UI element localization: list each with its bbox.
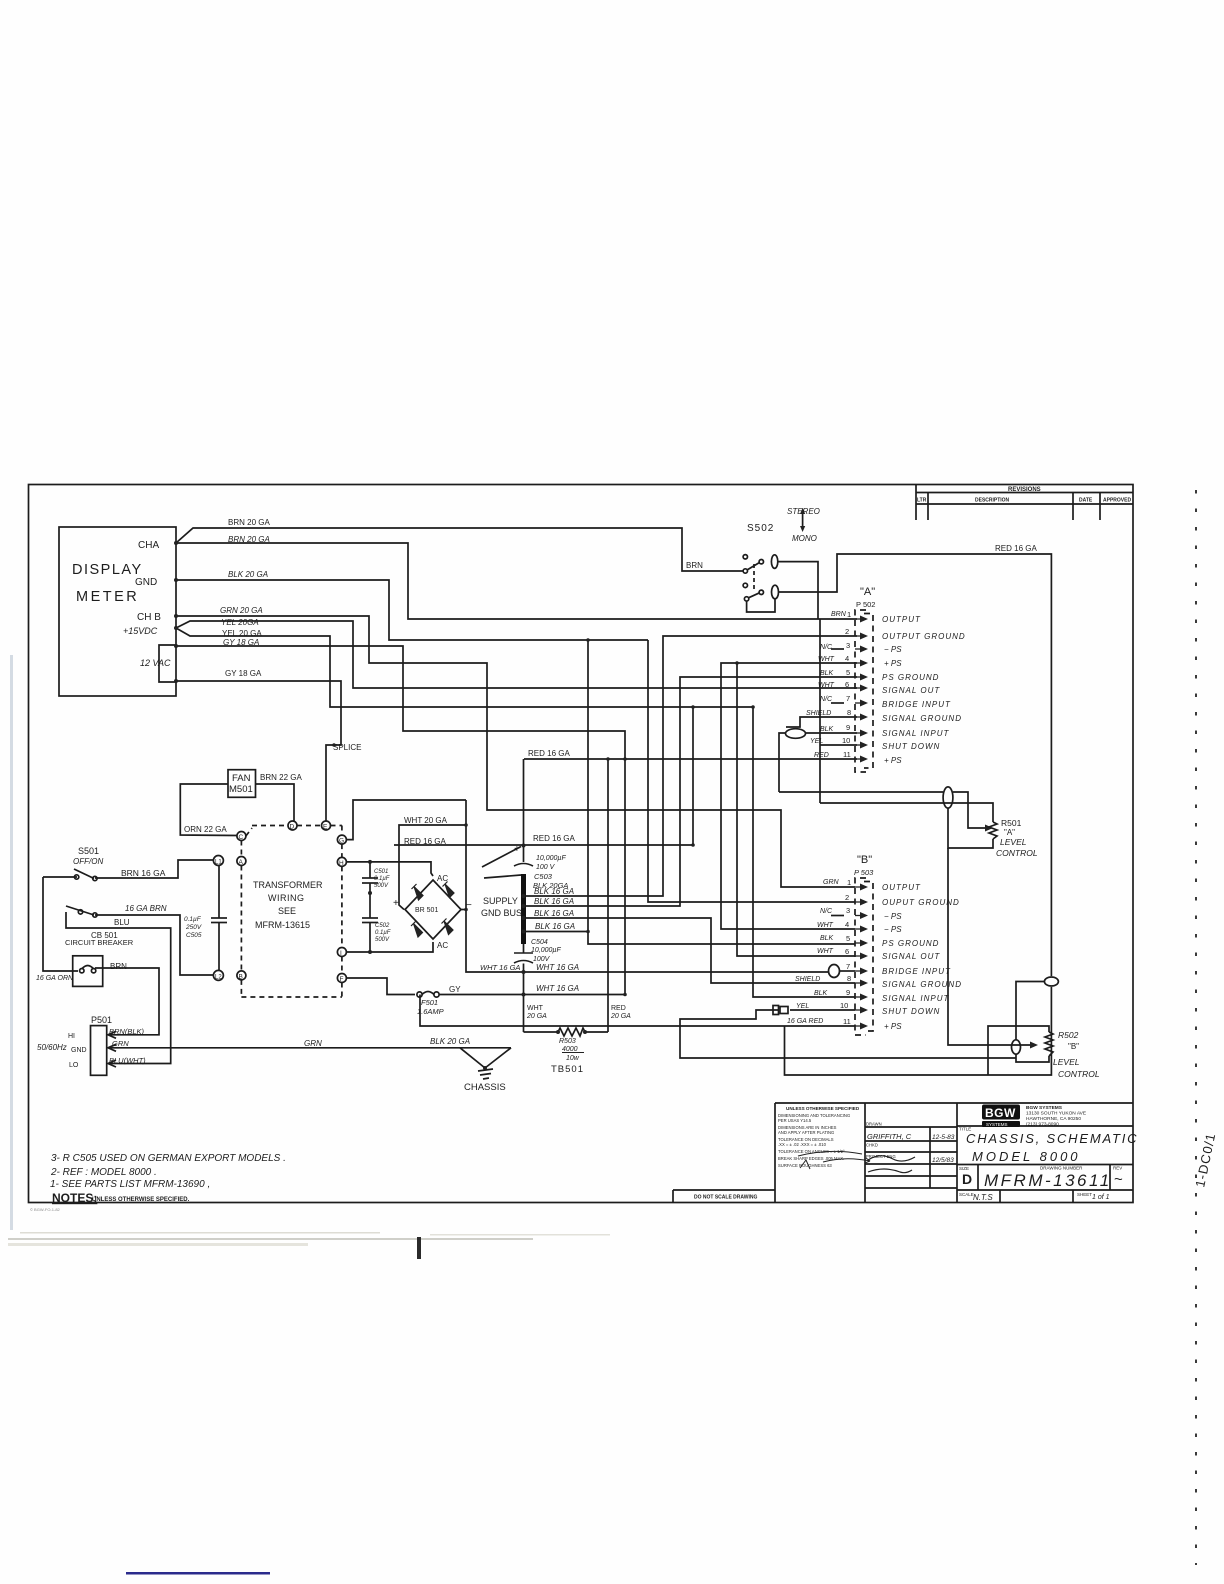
svg-text:50/60Hz: 50/60Hz — [37, 1043, 67, 1052]
svg-text:20 GA: 20 GA — [610, 1013, 631, 1020]
svg-text:P501: P501 — [91, 1015, 112, 1025]
svg-text:BRN 20 GA: BRN 20 GA — [228, 535, 270, 544]
svg-text:RED 16 GA: RED 16 GA — [528, 749, 570, 758]
svg-text:WHT: WHT — [818, 656, 835, 663]
svg-text:−: − — [466, 900, 472, 911]
svg-text:AC: AC — [437, 874, 448, 883]
svg-text:MODEL 8000: MODEL 8000 — [972, 1149, 1081, 1164]
wire vertical red 20ga to TB501 — [607, 759, 609, 1032]
svg-text:SEE: SEE — [278, 906, 296, 916]
wire diagonal into bus plus — [482, 847, 521, 868]
svg-text:SYSTEMS: SYSTEMS — [986, 1122, 1008, 1127]
diode arrows on bridge — [411, 882, 454, 938]
svg-text:© BGW-FO-1-82: © BGW-FO-1-82 — [30, 1207, 61, 1212]
svg-text:0.1µF: 0.1µF — [374, 876, 390, 882]
svg-text:BLK 20 GA: BLK 20 GA — [228, 570, 268, 579]
svg-text:3: 3 — [846, 906, 850, 915]
svg-text:7: 7 — [846, 694, 850, 703]
svg-text:A: A — [239, 859, 244, 866]
svg-text:OUTPUT: OUTPUT — [882, 615, 921, 624]
supply gnd bus thick segment — [521, 874, 526, 944]
svg-text:CIRCUIT BREAKER: CIRCUIT BREAKER — [65, 938, 134, 947]
svg-text:~: ~ — [1114, 1171, 1123, 1188]
svg-text:WHT: WHT — [817, 922, 834, 929]
svg-text:500V: 500V — [375, 937, 390, 943]
svg-text:APPROVED: APPROVED — [1103, 498, 1131, 504]
svg-text:C504: C504 — [531, 939, 548, 946]
svg-text:SIGNAL INPUT: SIGNAL INPUT — [882, 729, 950, 738]
svg-text:WHT 20 GA: WHT 20 GA — [404, 816, 448, 825]
svg-text:BRN(BLK): BRN(BLK) — [109, 1027, 145, 1036]
P501 pin arrows — [109, 1034, 119, 1036]
svg-text:MFRM-13611: MFRM-13611 — [984, 1171, 1112, 1190]
wire WHT16GA bridge minus row to P503 pin7 — [466, 800, 828, 972]
svg-text:GND: GND — [135, 577, 157, 588]
fuse F501 — [417, 992, 422, 997]
svg-text:BRIDGE INPUT: BRIDGE INPUT — [882, 700, 951, 709]
switch S501 wiring — [43, 876, 77, 878]
svg-text:CONTROL: CONTROL — [1058, 1069, 1100, 1079]
svg-text:I: I — [340, 950, 342, 957]
terminal circles L1 A — [213, 856, 223, 866]
svg-text:BLK: BLK — [820, 670, 834, 677]
P502 pin8 shield hook — [786, 717, 857, 727]
ground symbol — [478, 1069, 493, 1071]
wire stub at 693 — [692, 707, 694, 845]
svg-text:BGW: BGW — [985, 1106, 1016, 1120]
svg-text:CHA: CHA — [138, 540, 159, 551]
R501 shielded cable and pot — [779, 791, 943, 793]
svg-text:"A": "A" — [860, 586, 875, 598]
svg-text:UNLESS OTHERWISE SPECIFIED.: UNLESS OTHERWISE SPECIFIED. — [92, 1197, 190, 1203]
wire GY 18GA upper to fuse column — [176, 646, 625, 995]
svg-text:SPLICE: SPLICE — [333, 743, 361, 752]
svg-text:(213) 973-8090: (213) 973-8090 — [1026, 1122, 1059, 1128]
svg-text:11: 11 — [843, 750, 851, 759]
svg-text:20 GA: 20 GA — [526, 1013, 547, 1020]
svg-text:GRN: GRN — [112, 1039, 129, 1048]
svg-text:H: H — [339, 860, 344, 867]
svg-text:BLU: BLU — [114, 918, 130, 927]
wire N/C dash P503 pin3 — [831, 915, 844, 917]
scan artifact: dark tick — [417, 1237, 421, 1259]
svg-text:2: 2 — [845, 627, 849, 636]
svg-text:10w: 10w — [566, 1055, 580, 1062]
svg-text:LEVEL: LEVEL — [1000, 837, 1027, 847]
svg-text:10: 10 — [842, 736, 850, 745]
wire bridge minus stub — [461, 909, 466, 911]
wire GRN from P501 GND to chassis — [119, 1047, 511, 1049]
svg-text:SHIELD: SHIELD — [795, 976, 820, 983]
svg-text:8: 8 — [847, 708, 851, 717]
svg-text:BR 501: BR 501 — [415, 907, 438, 914]
svg-text:C505: C505 — [186, 932, 202, 939]
svg-text:CHASSIS, SCHEMATIC: CHASSIS, SCHEMATIC — [966, 1131, 1138, 1146]
svg-text:12/5/83: 12/5/83 — [932, 1157, 954, 1164]
svg-text:+ PS: + PS — [884, 1022, 902, 1031]
wire BRN from CB to P501 HI — [95, 968, 159, 1035]
capacitor C503 plates — [514, 864, 533, 867]
svg-text:BREAK SHARP EDGES .005 MAX.: BREAK SHARP EDGES .005 MAX. — [778, 1156, 844, 1161]
circuit breaker CB501 box — [73, 956, 103, 987]
svg-text:L1: L1 — [215, 860, 222, 866]
svg-text:SHUT DOWN: SHUT DOWN — [882, 1007, 940, 1016]
bridge rectifier BR501 diamond — [405, 880, 461, 939]
svg-text:WHT: WHT — [527, 1005, 544, 1012]
svg-text:.XX = ± .02 .XXX = ± .010: .XX = ± .02 .XXX = ± .010 — [778, 1142, 827, 1147]
wire GRN 20GA CHB to P503 pin1 — [176, 616, 855, 887]
svg-text:GND BUS: GND BUS — [481, 908, 522, 918]
svg-text:1- SEE PARTS LIST MFRM-13690: 1- SEE PARTS LIST MFRM-13690 , — [50, 1179, 210, 1190]
capacitor C502 — [362, 917, 378, 919]
wire R501 shield down to R502 wiper — [948, 848, 1030, 1045]
wire supply bus vertical — [523, 759, 525, 862]
wire F to fuse F501 — [346, 978, 415, 995]
junction dots mid area — [368, 638, 755, 1070]
svg-text:RED: RED — [814, 752, 829, 759]
wire BRN 20GA CHA upper — [176, 528, 744, 571]
svg-text:10,000µF: 10,000µF — [536, 855, 566, 862]
svg-text:RED 16 GA: RED 16 GA — [533, 834, 575, 843]
svg-text:N/C: N/C — [820, 696, 833, 703]
revisions table — [916, 485, 1133, 521]
R502 cable from big box oval — [1044, 977, 1058, 986]
svg-text:GRN: GRN — [304, 1039, 322, 1048]
capacitor C504 plates — [514, 952, 533, 954]
svg-text:4000: 4000 — [562, 1046, 578, 1053]
svg-text:SURFACE ROUGHNESS 63: SURFACE ROUGHNESS 63 — [778, 1163, 832, 1168]
wire N/C dash P502 pin3 — [831, 648, 844, 650]
svg-text:SIGNAL OUT: SIGNAL OUT — [882, 952, 940, 961]
svg-text:RED 16 GA: RED 16 GA — [404, 837, 446, 846]
svg-text:B: B — [239, 973, 243, 980]
svg-text:BLU(WHT): BLU(WHT) — [109, 1056, 146, 1065]
svg-text:S501: S501 — [78, 846, 99, 856]
wire to P503 pin2 output ground — [648, 640, 855, 902]
P503 pin7 oval — [829, 965, 840, 978]
svg-text:SHEET: SHEET — [1077, 1192, 1092, 1197]
svg-text:BLK 16 GA: BLK 16 GA — [534, 909, 574, 918]
svg-text:GY 18 GA: GY 18 GA — [225, 669, 262, 678]
svg-text:9: 9 — [846, 723, 850, 732]
svg-text:11: 11 — [843, 1017, 851, 1026]
wire YEL 20GA to P502 pin6 signal out — [176, 621, 857, 688]
svg-text:METER: METER — [76, 589, 139, 605]
svg-text:PS GROUND: PS GROUND — [882, 673, 939, 682]
svg-text:N.T.S: N.T.S — [973, 1193, 993, 1202]
wire WHT20GA down to bridge plus — [399, 825, 466, 910]
svg-text:WHT 16 GA: WHT 16 GA — [480, 963, 520, 972]
svg-text:4: 4 — [845, 920, 849, 929]
svg-text:BLK: BLK — [820, 726, 834, 733]
svg-text:"B": "B" — [1068, 1042, 1079, 1051]
svg-text:BLK 16 GA: BLK 16 GA — [534, 887, 574, 896]
scan artifact: right edge dashed fold line — [1195, 490, 1197, 1565]
svg-text:DRAWING NUMBER: DRAWING NUMBER — [1040, 1166, 1083, 1171]
S502 lower bracket — [747, 599, 775, 612]
transformer dashed box — [241, 826, 342, 998]
svg-text:OUTPUT GROUND: OUTPUT GROUND — [882, 632, 966, 641]
wire to P503 pin9 signal input — [753, 707, 855, 997]
svg-text:S502: S502 — [747, 523, 774, 534]
svg-text:STEREO: STEREO — [787, 507, 820, 516]
svg-text:R502: R502 — [1058, 1030, 1079, 1040]
svg-text:WIRING: WIRING — [268, 893, 305, 903]
svg-text:SIGNAL OUT: SIGNAL OUT — [882, 686, 940, 695]
capacitor C505 on L1-L2 — [218, 866, 220, 919]
svg-text:BGW SYSTEMS: BGW SYSTEMS — [1026, 1105, 1063, 1111]
svg-text:1: 1 — [847, 878, 851, 887]
wire BLU — [66, 912, 171, 1064]
svg-text:LO: LO — [69, 1062, 79, 1069]
transformer terminal circles C D E — [237, 832, 246, 841]
svg-text:ORN 22 GA: ORN 22 GA — [184, 825, 227, 834]
do not scale box — [673, 1189, 775, 1191]
svg-text:16 GA RED: 16 GA RED — [787, 1018, 823, 1025]
svg-text:YEL 20 GA: YEL 20 GA — [222, 629, 262, 638]
svg-text:SHIELD: SHIELD — [806, 710, 831, 717]
wire BLK 20GA GND — [176, 580, 648, 640]
svg-text:SHUT DOWN: SHUT DOWN — [882, 742, 940, 751]
wire YEL 20GA lower — [176, 628, 753, 707]
wire RED 16GA to P502 pin11 — [524, 758, 857, 760]
svg-text:BRN: BRN — [831, 611, 847, 618]
svg-text:3: 3 — [846, 641, 850, 650]
svg-text:DESCRIPTION: DESCRIPTION — [975, 498, 1010, 504]
wire GY fuse to right — [439, 994, 625, 996]
svg-text:3- R C505 USED ON GERMAN EXPOR: 3- R C505 USED ON GERMAN EXPORT MODELS . — [51, 1153, 286, 1164]
wire to P503 pin6 signal out — [737, 663, 855, 956]
display meter 12VAC notch — [159, 645, 176, 682]
svg-text:0.1µF: 0.1µF — [375, 930, 391, 936]
svg-text:REV: REV — [1113, 1166, 1122, 1171]
svg-text:GRIFFITH, C: GRIFFITH, C — [867, 1132, 912, 1141]
svg-text:CONTROL: CONTROL — [996, 848, 1038, 858]
wire P502 pin5 PS ground to bus — [524, 677, 858, 906]
svg-text:WHT: WHT — [818, 682, 835, 689]
svg-text:1 of 1: 1 of 1 — [1092, 1194, 1110, 1201]
svg-text:13130 SOUTH YUKON AVE: 13130 SOUTH YUKON AVE — [1026, 1111, 1086, 1117]
svg-text:AC: AC — [437, 941, 448, 950]
svg-text:PS GROUND: PS GROUND — [882, 939, 939, 948]
svg-text:RED: RED — [611, 1005, 626, 1012]
svg-text:UNLESS OTHERWISE SPECIFIED: UNLESS OTHERWISE SPECIFIED — [786, 1106, 860, 1111]
scan artifact: blue pen line bottom — [126, 1572, 270, 1575]
svg-text:WHT 16 GA: WHT 16 GA — [536, 963, 579, 972]
svg-text:5: 5 — [846, 668, 850, 677]
svg-text:C: C — [239, 834, 244, 841]
svg-text:P 502: P 502 — [856, 600, 875, 609]
svg-text:DISPLAY: DISPLAY — [72, 562, 143, 578]
svg-text:C501: C501 — [374, 869, 388, 875]
svg-text:TRANSFORMER: TRANSFORMER — [253, 880, 323, 890]
connector P501 box — [91, 1026, 107, 1076]
wire BRN 20GA CHA lower to P502 pin1 — [176, 543, 857, 619]
wire S502 pole A out — [778, 562, 818, 619]
meter pin junction dots — [174, 541, 178, 683]
potentiometer R501 zigzag — [989, 822, 997, 839]
svg-text:SUPPLY: SUPPLY — [483, 896, 518, 906]
svg-text:BLK: BLK — [814, 990, 828, 997]
svg-text:GRN: GRN — [823, 879, 840, 886]
scan artifact: left edge pale line — [10, 655, 13, 1230]
wire long vertical from S502 junction down to R501 — [819, 619, 821, 803]
BGW logo — [982, 1105, 1020, 1128]
terminal circles L2 B — [213, 970, 223, 980]
svg-text:R503: R503 — [559, 1038, 576, 1045]
svg-text:N/C: N/C — [820, 908, 833, 915]
svg-text:M501: M501 — [229, 784, 253, 795]
svg-text:6: 6 — [845, 947, 849, 956]
svg-text:16 GA ORN: 16 GA ORN — [36, 975, 74, 982]
svg-text:OFF/ON: OFF/ON — [73, 857, 103, 866]
svg-text:NOTES:: NOTES: — [52, 1191, 97, 1205]
svg-text:1: 1 — [847, 610, 851, 619]
chassis ground drop — [460, 1048, 485, 1068]
svg-text:FAN: FAN — [232, 773, 251, 784]
svg-text:10,000µF: 10,000µF — [531, 947, 561, 954]
wire bus row BLK16GA short — [524, 931, 590, 933]
svg-text:+ PS: + PS — [884, 659, 902, 668]
svg-text:+: + — [514, 844, 520, 855]
svg-text:6: 6 — [845, 680, 849, 689]
svg-text:CH B: CH B — [137, 612, 161, 623]
svg-text:12-5-83: 12-5-83 — [932, 1134, 955, 1141]
svg-text:2- REF : MODEL 8000 .: 2- REF : MODEL 8000 . — [50, 1167, 157, 1178]
svg-text:R501: R501 — [1001, 818, 1022, 828]
svg-text:D: D — [962, 1171, 972, 1187]
wire P502 pin2 output ground to supply bus — [524, 636, 858, 896]
svg-text:SCALE: SCALE — [959, 1192, 974, 1197]
svg-text:D: D — [290, 824, 295, 831]
wire S502 pole B out around right to R502 — [779, 554, 1052, 976]
svg-text:OUPUT GROUND: OUPUT GROUND — [882, 898, 960, 907]
svg-text:4: 4 — [845, 654, 849, 663]
svg-text:LTR: LTR — [917, 498, 927, 504]
svg-text:OUTPUT: OUTPUT — [882, 883, 921, 892]
svg-text:GRN 20 GA: GRN 20 GA — [220, 606, 263, 615]
svg-text:250V: 250V — [185, 924, 202, 931]
svg-text:BRN 20 GA: BRN 20 GA — [228, 518, 270, 527]
scan artifact: bottom smudge band — [8, 1238, 533, 1240]
svg-text:CHKD: CHKD — [866, 1143, 878, 1148]
wire ORN 22GA fan left to C — [180, 784, 237, 836]
P502 pin9 wire with shield oval — [806, 732, 857, 734]
svg-text:MFRM-13615: MFRM-13615 — [255, 920, 310, 930]
svg-text:16 GA BRN: 16 GA BRN — [125, 904, 167, 913]
svg-text:GY: GY — [449, 985, 461, 994]
svg-text:BLK: BLK — [820, 935, 834, 942]
svg-text:YEL: YEL — [810, 738, 823, 745]
P502 pin10 YEL wire — [820, 744, 857, 746]
svg-text:− PS: − PS — [884, 645, 902, 654]
svg-text:N/C: N/C — [820, 644, 833, 651]
fan M501 box — [228, 770, 256, 798]
P502 pin arrows — [855, 616, 868, 1030]
svg-text:0.1µF: 0.1µF — [184, 916, 202, 923]
potentiometer R502 zigzag — [1045, 1032, 1053, 1056]
display meter box — [59, 527, 176, 696]
svg-text:DRAWN: DRAWN — [866, 1122, 882, 1127]
svg-text:SIGNAL INPUT: SIGNAL INPUT — [882, 994, 950, 1003]
svg-text:BRN: BRN — [686, 561, 703, 570]
svg-text:8: 8 — [847, 974, 851, 983]
terminal circles G H I F — [337, 835, 346, 844]
wire G up-over to bridge area — [346, 800, 466, 840]
connector P502 dashed box — [855, 610, 873, 772]
wire RED 16GA bus feed row — [394, 844, 693, 846]
svg-text:SIGNAL GROUND: SIGNAL GROUND — [882, 980, 962, 989]
svg-text:BLK 16 GA: BLK 16 GA — [534, 897, 574, 906]
switch S502 — [743, 555, 747, 559]
svg-text:YEL: YEL — [796, 1003, 809, 1010]
wire H to bridge AC top — [346, 862, 433, 876]
wire oval to P503 pin7 — [840, 970, 855, 972]
svg-text:F501: F501 — [421, 998, 438, 1007]
title rows right — [957, 1125, 1133, 1127]
svg-text:BLK 16 GA: BLK 16 GA — [535, 922, 575, 931]
svg-text:+ PS: + PS — [884, 756, 902, 765]
svg-text:100V: 100V — [533, 956, 551, 963]
svg-text:HAWTHORNE, CA 90250: HAWTHORNE, CA 90250 — [1026, 1116, 1081, 1122]
svg-text:BRIDGE INPUT: BRIDGE INPUT — [882, 967, 951, 976]
svg-text:DATE: DATE — [1079, 498, 1093, 504]
svg-text:12 VAC: 12 VAC — [140, 658, 171, 668]
connector P503 dashed box — [855, 878, 873, 1035]
wire GY 18GA lower to splice/E — [176, 681, 341, 821]
svg-text:WHT 16 GA: WHT 16 GA — [536, 984, 579, 993]
svg-text:P 503: P 503 — [854, 868, 874, 877]
svg-text:1.6AMP: 1.6AMP — [417, 1007, 444, 1016]
svg-text:L2: L2 — [215, 974, 222, 980]
svg-text:100 V: 100 V — [536, 864, 556, 871]
svg-text:PER USAS Y14.5: PER USAS Y14.5 — [778, 1118, 812, 1123]
svg-text:2: 2 — [845, 893, 849, 902]
svg-text:LEVEL: LEVEL — [1053, 1057, 1080, 1067]
border frame — [29, 485, 1134, 1203]
wire to P503 pin11 +PS — [420, 995, 855, 1027]
svg-text:WHT: WHT — [817, 948, 834, 955]
svg-text:GND: GND — [71, 1047, 87, 1054]
wire BLK to P503 pin5 PS GROUND — [588, 640, 855, 944]
svg-text:BRN: BRN — [110, 962, 127, 971]
wire R502 top to +PS junction — [988, 1026, 1049, 1075]
svg-text:TB501: TB501 — [551, 1064, 584, 1075]
resistor R503 — [524, 1028, 609, 1036]
title block outline — [775, 1102, 1133, 1104]
svg-text:BRN 16 GA: BRN 16 GA — [121, 868, 166, 878]
svg-text:E: E — [323, 824, 328, 831]
name/date rows — [865, 1126, 957, 1128]
svg-text:YEL 20GA: YEL 20GA — [221, 618, 259, 627]
wire I to bridge AC bottom — [346, 942, 433, 952]
svg-text:− PS: − PS — [884, 925, 902, 934]
wire bus row BLK16GA to P503 pin8 shield — [524, 918, 856, 983]
wire P502 pin4 to P503 pin4 — [721, 663, 857, 929]
svg-text:+15VDC: +15VDC — [123, 626, 158, 636]
svg-text:REVISIONS: REVISIONS — [1008, 487, 1041, 493]
svg-text:C502: C502 — [375, 923, 390, 929]
capacitor C501 — [369, 862, 371, 878]
svg-text:10: 10 — [840, 1001, 848, 1010]
svg-text:CHASSIS: CHASSIS — [464, 1082, 506, 1093]
svg-text:AND APPLY AFTER PLATING: AND APPLY AFTER PLATING — [778, 1130, 834, 1135]
svg-text:GY 18 GA: GY 18 GA — [223, 638, 259, 647]
wire N/C dash P502 pin7 — [831, 702, 844, 704]
svg-text:BLK 20 GA: BLK 20 GA — [430, 1037, 470, 1046]
svg-text:7: 7 — [846, 962, 850, 971]
svg-text:SIGNAL GROUND: SIGNAL GROUND — [882, 714, 962, 723]
